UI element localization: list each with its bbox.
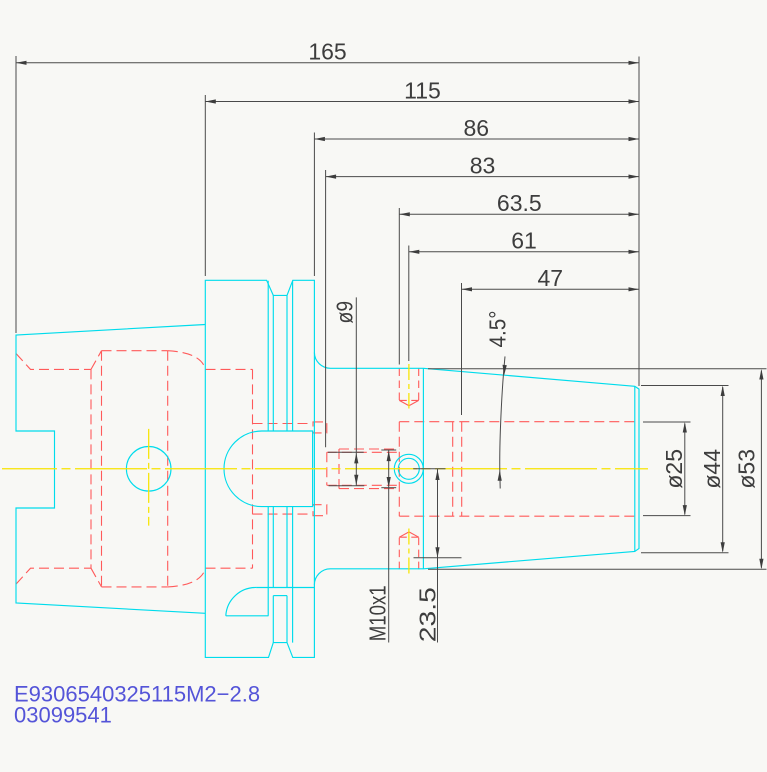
flange shoulder face bbox=[313, 353, 315, 586]
hidden stud thread top bbox=[339, 448, 399, 450]
hidden bottom hole left wall bbox=[398, 537, 400, 569]
dimension 165 bbox=[16, 62, 639, 64]
svg-text:ø53: ø53 bbox=[734, 449, 760, 489]
gripper bullet bbox=[224, 431, 313, 507]
hidden pocket top bbox=[253, 423, 314, 425]
hidden step wall x252.5 bbox=[252, 369, 254, 568]
groove edge x292.6 upper bbox=[292, 281, 294, 431]
hidden cavity chamfer top bbox=[91, 351, 102, 370]
ext line 61 left bbox=[408, 246, 410, 362]
dimension 115 bbox=[205, 101, 639, 103]
svg-text:63.5: 63.5 bbox=[497, 190, 542, 216]
svg-text:86: 86 bbox=[464, 115, 490, 141]
dimension 23.5 bbox=[437, 469, 439, 643]
cone gauge face bbox=[422, 368, 424, 569]
hidden bore top bbox=[399, 421, 639, 423]
dimension 47 bbox=[462, 288, 640, 290]
shank hole circle bbox=[126, 447, 171, 492]
ext line 63.5 left bbox=[398, 208, 400, 365]
hidden top hole right wall bbox=[418, 369, 420, 401]
svg-text:47: 47 bbox=[538, 265, 564, 291]
hidden bottom hole top bbox=[399, 536, 418, 538]
svg-text:ø44: ø44 bbox=[699, 449, 725, 489]
svg-text:M10x1: M10x1 bbox=[364, 585, 390, 641]
dimension 61 bbox=[409, 251, 639, 253]
tip chamfer edge bbox=[634, 386, 636, 551]
groove edge x287 below slot bbox=[286, 596, 288, 643]
groove edge x273.3 below slot bbox=[272, 596, 274, 643]
svg-text:83: 83 bbox=[470, 152, 496, 178]
hidden stud thread bottom bbox=[339, 488, 399, 490]
ext line 47 left bbox=[461, 283, 463, 415]
hidden cavity corner arc top bbox=[168, 351, 206, 370]
ext line shared right bbox=[638, 57, 640, 387]
groove edge x287 lower bbox=[286, 507, 288, 588]
hidden bore back chamfer top bbox=[16, 354, 91, 370]
hidden key block top bbox=[313, 422, 327, 433]
groove edge x273.3 upper bbox=[272, 295, 274, 431]
centerline bottom radial hole bbox=[408, 529, 410, 575]
hidden pocket bottom bbox=[253, 513, 314, 515]
centerline top radial hole bbox=[408, 364, 410, 409]
dimension 86 bbox=[314, 138, 639, 140]
hidden top hole left wall bbox=[398, 369, 400, 401]
ext line 115 left bbox=[204, 95, 206, 276]
hidden stud core end bbox=[326, 452, 328, 485]
svg-text:115: 115 bbox=[404, 77, 441, 103]
hidden bottom hole right wall bbox=[418, 537, 420, 569]
hidden bore line bottom flange bbox=[206, 567, 253, 569]
hidden top hole bottom bbox=[399, 399, 418, 401]
pilot hole outer circle bbox=[394, 454, 423, 483]
hidden cavity top line bbox=[102, 350, 168, 352]
svg-text:61: 61 bbox=[511, 228, 537, 254]
dimension dia9 bbox=[355, 297, 357, 485]
hidden bore bottom bbox=[399, 515, 639, 517]
drive slot lower line bbox=[226, 615, 269, 617]
groove edge x292.6 lower bbox=[292, 507, 294, 643]
hidden cavity wall x91 bbox=[90, 369, 92, 568]
hidden bore step x452.7 bbox=[452, 422, 454, 517]
dimension 83 bbox=[326, 176, 639, 178]
hidden cavity chamfer bottom bbox=[91, 568, 102, 587]
ext line 86 left bbox=[313, 133, 315, 277]
hidden bore line top flange bbox=[206, 368, 253, 370]
groove edge x268.2 lower bbox=[267, 507, 269, 616]
hidden top hole drill point bbox=[399, 400, 418, 405]
hidden cavity wall x167.7 bbox=[167, 351, 169, 587]
hidden stud core bottom bbox=[327, 484, 400, 486]
dimension M10x1 bbox=[388, 450, 390, 643]
hidden bore back wall bbox=[398, 422, 400, 517]
svg-text:165: 165 bbox=[308, 39, 346, 65]
drive slot upper line bbox=[257, 587, 315, 589]
centerline main axis bbox=[2, 468, 648, 470]
svg-text:4.5°: 4.5° bbox=[485, 310, 511, 347]
shank taper outline bbox=[16, 325, 205, 614]
pilot hole inner circle bbox=[398, 458, 419, 479]
hidden stud core top bbox=[327, 451, 400, 453]
dimension dia53 bbox=[760, 371, 762, 568]
svg-text:ø9: ø9 bbox=[331, 301, 357, 324]
svg-text:03099541: 03099541 bbox=[14, 702, 112, 727]
drive slot arc bbox=[226, 587, 257, 615]
hidden bore back chamfer bottom bbox=[16, 568, 91, 584]
hidden stud thread end bbox=[338, 449, 340, 489]
hidden cavity corner arc bottom bbox=[168, 568, 206, 587]
dimension dia25 bbox=[684, 424, 686, 515]
ext line 165 left bbox=[15, 56, 17, 333]
hidden bottom hole drill point bbox=[399, 532, 418, 537]
dimension 63.5 bbox=[399, 213, 639, 215]
flange and body outline bbox=[205, 280, 639, 657]
hidden cavity wall x101.5 bbox=[101, 351, 103, 587]
dimension dia44 bbox=[722, 387, 724, 551]
groove edge x268.2 upper bbox=[267, 281, 269, 431]
hidden key block bottom bbox=[313, 505, 327, 516]
groove edge x287 upper bbox=[286, 295, 288, 431]
svg-text:ø25: ø25 bbox=[661, 449, 687, 489]
ext line 83 left bbox=[325, 170, 327, 447]
centerline shank circle vertical bbox=[148, 429, 150, 526]
hidden cavity bottom line bbox=[102, 586, 168, 588]
svg-text:23.5: 23.5 bbox=[414, 587, 440, 642]
groove edge x273.3 lower bbox=[272, 507, 274, 588]
hidden bore step x461.7 bbox=[461, 422, 463, 517]
groove cylinder cap bbox=[273, 595, 287, 597]
dimension 4.5 degrees bbox=[500, 356, 505, 488]
